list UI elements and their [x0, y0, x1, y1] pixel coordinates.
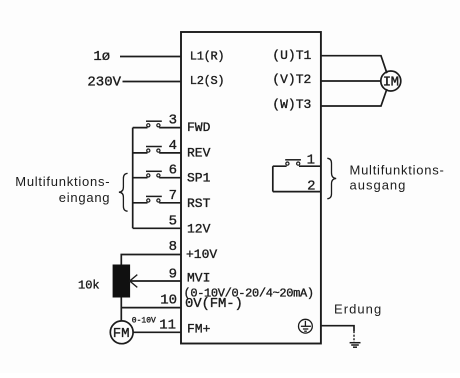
svg-text:+10V: +10V [186, 247, 217, 262]
wire terminal 10 0V [121, 307, 181, 309]
digital input bus wire [132, 128, 134, 229]
svg-text:(W)T3: (W)T3 [272, 97, 311, 112]
switch S1 FWD [146, 121, 162, 127]
svg-text:1: 1 [307, 152, 315, 168]
svg-text:10k: 10k [78, 278, 100, 292]
svg-text:REV: REV [187, 146, 211, 161]
wire terminal 7 RST [133, 202, 181, 204]
svg-text:(U)T1: (U)T1 [272, 48, 311, 63]
relay output wire terminal 2 [273, 191, 321, 193]
svg-text:4: 4 [169, 138, 177, 154]
svg-text:L1(R): L1(R) [190, 49, 225, 63]
brace right Multifunktionsausgang [327, 158, 336, 198]
wire terminal 8 +10V [121, 255, 181, 265]
svg-text:Multifunktions-: Multifunktions- [15, 174, 110, 189]
svg-text:Multifunktions-: Multifunktions- [350, 163, 445, 178]
wiper arrow of R1 [130, 275, 138, 288]
wire R1 bottom to FM meter [120, 298, 122, 321]
svg-text:10: 10 [160, 292, 177, 308]
svg-text:MVI: MVI [187, 271, 210, 286]
svg-text:6: 6 [169, 163, 177, 179]
wire earth vertical dotted [353, 331, 355, 342]
earth screw terminal symbol [299, 319, 313, 333]
motor M1 IM [381, 71, 401, 91]
brace left Multifunktionseingang [119, 173, 128, 211]
wire earth Erdung [321, 326, 354, 331]
wire L1 supply [120, 56, 181, 58]
svg-text:3: 3 [169, 113, 177, 129]
wire terminal 9 MVI wiper [130, 280, 181, 282]
svg-text:8: 8 [169, 239, 177, 255]
svg-text:IM: IM [383, 75, 399, 91]
ground symbol [350, 343, 361, 348]
svg-text:5: 5 [169, 213, 177, 229]
switch S3 SP1 [146, 171, 162, 177]
svg-text:FM+: FM+ [187, 322, 211, 337]
wire L2 supply [123, 81, 182, 83]
svg-text:9: 9 [169, 266, 177, 282]
svg-text:FWD: FWD [187, 120, 211, 135]
svg-text:Erdung: Erdung [334, 301, 382, 316]
svg-text:eingang: eingang [59, 190, 111, 205]
wire terminal 6 SP1 [133, 177, 181, 179]
svg-text:1ø: 1ø [93, 49, 110, 65]
svg-text:7: 7 [169, 188, 177, 204]
switch S2 REV [146, 147, 162, 153]
relay contact K1 [285, 160, 301, 165]
svg-text:0-10V: 0-10V [132, 317, 156, 326]
wire terminal 11 FM+ [133, 331, 181, 333]
svg-text:230V: 230V [87, 75, 121, 91]
wire terminal 3 FWD [133, 127, 181, 129]
svg-text:L2(S): L2(S) [190, 74, 225, 88]
svg-text:11: 11 [159, 318, 176, 334]
svg-text:SP1: SP1 [187, 171, 211, 186]
svg-text:FM: FM [113, 326, 130, 342]
switch S4 RST [146, 196, 162, 202]
potentiometer R1 10k body [113, 265, 131, 298]
wire T3 to motor [321, 89, 387, 106]
svg-text:0V(FM-): 0V(FM-) [185, 296, 243, 312]
svg-text:ausgang: ausgang [350, 178, 407, 193]
wire T1 to motor [321, 56, 387, 73]
wire terminal 5 12V [133, 227, 181, 229]
relay output left wire [272, 166, 274, 191]
wire terminal 4 REV [133, 152, 181, 154]
svg-text:RST: RST [187, 196, 211, 211]
svg-text:2: 2 [307, 178, 315, 194]
svg-text:12V: 12V [187, 222, 211, 237]
wire T2 to motor [321, 80, 381, 82]
main drive box U1 [181, 32, 321, 344]
meter FM body [110, 321, 133, 344]
relay output wire terminal 1 [273, 165, 321, 167]
svg-text:(V)T2: (V)T2 [272, 72, 311, 87]
